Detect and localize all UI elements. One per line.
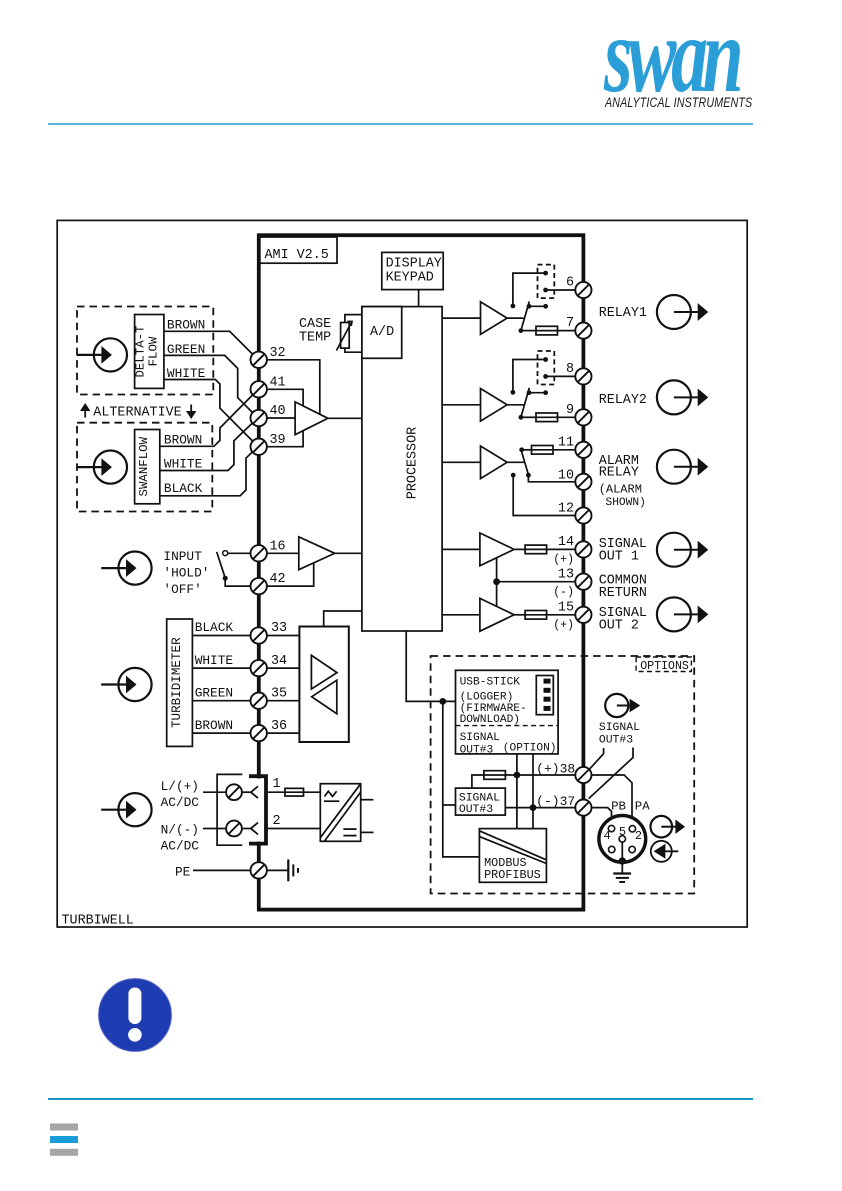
svg-text:(+): (+)	[553, 619, 574, 632]
svg-text:16: 16	[270, 540, 286, 555]
relay 2 contact dot	[543, 390, 548, 395]
interface receiver triangle	[312, 680, 337, 714]
svg-text:USB-STICK: USB-STICK	[460, 676, 521, 688]
wire	[203, 791, 226, 793]
svg-text:2: 2	[273, 814, 281, 829]
terminal 12	[575, 507, 591, 523]
diagram frame	[57, 220, 747, 927]
svg-text:BLACK: BLACK	[195, 620, 234, 635]
wire	[507, 317, 523, 319]
svg-text:(ALARM: (ALARM	[599, 483, 642, 497]
terminal 42	[251, 578, 267, 594]
relay 1 contact dot	[527, 304, 532, 309]
delta-T flow sensor symbol	[77, 338, 127, 371]
relay 1 contact dot	[543, 288, 548, 293]
svg-text:BROWN: BROWN	[167, 318, 205, 333]
svg-text:35: 35	[271, 686, 287, 701]
alarm relay output symbol	[657, 450, 708, 484]
wire	[546, 375, 576, 377]
svg-text:32: 32	[270, 346, 286, 361]
relay 2 contact dot	[543, 357, 548, 362]
terminal 16	[251, 545, 267, 561]
junction common return	[493, 578, 500, 585]
svg-text:'OFF': 'OFF'	[163, 582, 201, 597]
terminal 6	[575, 282, 591, 298]
svg-text:ALTERNATIVE: ALTERNATIVE	[93, 405, 181, 420]
wire	[507, 461, 524, 463]
wire white swanflow to terminal 40	[160, 418, 258, 471]
alternative down arrow	[186, 405, 196, 420]
svg-text:RELAY: RELAY	[599, 466, 639, 481]
wire	[621, 842, 623, 873]
wire	[521, 330, 536, 332]
svg-text:1: 1	[273, 777, 281, 792]
connector pin 5	[619, 836, 625, 842]
wire	[529, 392, 546, 394]
wire	[472, 775, 484, 788]
wire	[345, 315, 362, 323]
wire	[547, 548, 576, 550]
terminal 32	[251, 352, 267, 368]
relay 1 pivot dot	[519, 328, 524, 333]
svg-text:36: 36	[271, 719, 287, 734]
terminal 15	[575, 607, 591, 623]
plug contact N	[242, 823, 258, 835]
svg-text:13: 13	[558, 567, 574, 582]
relay 1 contact box	[538, 265, 555, 299]
relay 1 contact dot	[543, 304, 548, 309]
wire	[507, 404, 523, 406]
svg-text:BROWN: BROWN	[195, 718, 233, 733]
relay 1 output symbol	[657, 295, 708, 329]
wire	[496, 558, 498, 607]
svg-text:RELAY2: RELAY2	[599, 393, 647, 408]
wire	[259, 562, 314, 586]
wire	[546, 289, 576, 291]
processor U1	[362, 307, 442, 631]
relay 2 output symbol	[657, 380, 708, 414]
svg-text:RELAY1: RELAY1	[599, 306, 647, 321]
usb-stick box	[456, 670, 559, 754]
junction usb	[439, 698, 446, 705]
wire	[268, 791, 285, 793]
svg-text:PB: PB	[611, 800, 626, 814]
svg-text:DISPLAY: DISPLAY	[386, 257, 442, 272]
svg-text:42: 42	[270, 572, 286, 587]
wire	[328, 417, 362, 419]
terminal 40	[251, 410, 267, 426]
fuse alarm relay	[532, 446, 554, 455]
wire	[361, 799, 374, 801]
svg-text:DELTA-T: DELTA-T	[133, 325, 147, 377]
svg-text:WHITE: WHITE	[164, 457, 203, 472]
swanflow label box	[135, 430, 160, 504]
svg-text:SHOWN): SHOWN)	[606, 497, 646, 509]
svg-text:'HOLD': 'HOLD'	[163, 565, 209, 580]
svg-text:34: 34	[271, 654, 287, 669]
signal out 1 output symbol	[657, 533, 708, 567]
fuse relay 1	[536, 326, 558, 335]
power terminal N	[226, 821, 242, 837]
svg-text:(-): (-)	[553, 586, 574, 599]
interface driver triangle	[311, 655, 337, 689]
fuse relay 2	[536, 413, 558, 422]
power input symbol	[101, 793, 151, 826]
alarm contact dot	[526, 473, 531, 478]
svg-text:RETURN: RETURN	[599, 586, 647, 601]
terminal 34	[251, 660, 267, 676]
swanflow sensor symbol	[77, 451, 127, 484]
terminal 7	[575, 323, 591, 339]
svg-text:(+): (+)	[553, 554, 574, 567]
profibus input symbol	[651, 841, 679, 862]
footer bar 3	[50, 1149, 78, 1156]
connector pin bottom left	[609, 846, 615, 852]
svg-text:5: 5	[619, 825, 626, 839]
wire	[521, 416, 536, 418]
connector pin 2	[629, 826, 635, 832]
svg-text:FLOW: FLOW	[146, 336, 160, 366]
svg-text:TEMP: TEMP	[299, 331, 331, 346]
wire	[406, 631, 455, 701]
svg-text:OUT#3: OUT#3	[459, 804, 493, 816]
signal out 1 amplifier A6	[480, 533, 514, 566]
wire	[514, 548, 525, 550]
wire	[547, 614, 576, 616]
svg-text:11: 11	[558, 436, 574, 451]
wire	[532, 754, 534, 829]
turbidimeter label box	[167, 619, 193, 746]
footer bar 2	[50, 1136, 78, 1143]
wire	[361, 831, 374, 833]
svg-text:10: 10	[558, 468, 574, 483]
svg-text:(+)38: (+)38	[536, 761, 575, 776]
display keypad box U2	[382, 252, 443, 289]
power terminal L	[226, 784, 242, 800]
junction connector shield	[619, 857, 627, 865]
relay 2 contact arm	[521, 388, 529, 417]
wire	[558, 330, 576, 332]
svg-text:40: 40	[270, 404, 286, 419]
wire terminal 35 to interface	[259, 700, 300, 702]
wire black swanflow to terminal 39	[160, 446, 258, 496]
relay 2 contact dot	[527, 390, 532, 395]
fuse signal out 2	[525, 611, 547, 620]
wire	[193, 869, 251, 871]
wire brown to terminal 36	[192, 732, 258, 734]
wire	[591, 808, 611, 829]
svg-text:OUT 2: OUT 2	[599, 618, 639, 633]
terminal 38	[575, 767, 591, 783]
wire	[203, 828, 226, 830]
svg-text:AMI V2.5: AMI V2.5	[265, 248, 329, 263]
svg-text:BROWN: BROWN	[164, 432, 202, 447]
ground symbol connector	[613, 874, 631, 883]
wire	[268, 828, 321, 830]
svg-text:TURBIDIMETER: TURBIDIMETER	[170, 637, 184, 728]
svg-text:PE: PE	[175, 865, 191, 880]
junction 37	[530, 804, 537, 811]
connector pin 4	[608, 825, 614, 831]
wire	[589, 748, 603, 769]
svg-text:(LOGGER): (LOGGER)	[460, 692, 514, 704]
wire	[227, 552, 258, 554]
fuse signal out 3	[484, 771, 506, 780]
svg-text:GREEN: GREEN	[195, 685, 233, 700]
wire	[553, 449, 575, 451]
hold switch S1	[217, 551, 228, 581]
relay 2 amplifier A4	[481, 389, 508, 422]
sensor amplifier A1	[295, 402, 328, 435]
alarm relay amplifier A5	[481, 446, 508, 479]
wire	[259, 360, 320, 415]
A/D converter U3	[362, 307, 402, 359]
svg-text:BLACK: BLACK	[164, 481, 203, 496]
svg-text:OUT 1: OUT 1	[599, 549, 639, 564]
signal out 2 output symbol	[657, 597, 708, 631]
signal out 3 module box	[456, 788, 506, 815]
wire	[589, 748, 633, 799]
svg-text:(FIRMWARE-: (FIRMWARE-	[460, 703, 527, 715]
AC/DC converter U5	[320, 784, 360, 842]
wire	[514, 614, 525, 616]
svg-text:PROCESSOR: PROCESSOR	[406, 427, 421, 499]
alarm contact dot	[511, 473, 516, 478]
delta-T flow sensor dashed box	[77, 307, 213, 395]
svg-text:(OPTION): (OPTION)	[503, 742, 557, 754]
svg-text:L/(+): L/(+)	[161, 779, 199, 794]
warning icon	[99, 979, 172, 1052]
hold amplifier A2	[299, 537, 335, 570]
wire white delta-T to terminal 39	[164, 380, 258, 447]
wire	[505, 774, 575, 776]
AMI V2.5 unit box	[259, 235, 584, 909]
thermistor RT1	[336, 321, 352, 350]
wire	[324, 611, 362, 627]
wire black to terminal 33	[192, 635, 258, 637]
svg-text:OUT#3: OUT#3	[460, 744, 494, 756]
svg-text:INPUT: INPUT	[163, 549, 202, 564]
relay 1 contact dot	[543, 271, 548, 276]
svg-text:39: 39	[270, 433, 286, 448]
svg-text:DOWNLOAD): DOWNLOAD)	[460, 714, 520, 726]
svg-text:TURBIWELL: TURBIWELL	[62, 914, 134, 929]
swan logo	[604, 1, 804, 95]
modbus profibus box	[479, 829, 546, 883]
wire keypad to processor	[418, 290, 420, 307]
terminal 11	[575, 442, 591, 458]
wire	[442, 317, 480, 319]
svg-text:8: 8	[566, 362, 574, 377]
terminal 13	[575, 574, 591, 590]
svg-text:4: 4	[604, 829, 611, 843]
fuse F1	[285, 788, 304, 796]
svg-text:SIGNAL: SIGNAL	[599, 722, 640, 734]
svg-text:N/(-): N/(-)	[161, 822, 199, 837]
profibus output symbol	[651, 816, 686, 838]
wire	[267, 869, 288, 871]
wire	[259, 389, 303, 407]
relay 2 contact dot	[511, 390, 516, 395]
wire	[442, 461, 480, 463]
svg-text:41: 41	[270, 376, 286, 391]
relay 1 amplifier A3	[481, 302, 508, 335]
svg-text:7: 7	[566, 316, 574, 331]
connector pin bottom right	[629, 846, 635, 852]
wire	[505, 807, 575, 809]
svg-text:14: 14	[558, 535, 574, 550]
wire brown delta-T to terminal 32	[164, 331, 258, 360]
junction 38	[514, 772, 521, 779]
terminal 41	[251, 381, 267, 397]
bus gap at power connector	[256, 778, 262, 841]
terminal 35	[251, 693, 267, 709]
OPTIONS label box	[636, 657, 691, 672]
turbidimeter sensor symbol	[101, 668, 151, 701]
alarm relay contact arm	[522, 452, 529, 474]
M12 connector J1	[599, 816, 646, 863]
terminal 36	[251, 725, 267, 741]
signal out 3 output symbol	[605, 694, 640, 717]
wire	[304, 791, 321, 793]
wire	[558, 416, 576, 418]
AMI V2.5 label box	[259, 237, 337, 263]
power connector plug bracket	[249, 776, 266, 843]
wire	[442, 614, 480, 616]
svg-text:12: 12	[558, 501, 574, 516]
relay 2 contact dot	[543, 374, 548, 379]
svg-text:PA: PA	[635, 800, 650, 814]
svg-text:SIGNAL: SIGNAL	[459, 793, 500, 805]
wire brown swanflow to terminal 41	[160, 389, 258, 446]
alarm contact dot	[519, 447, 524, 452]
turbidimeter interface U4	[299, 627, 348, 743]
logo subtitle	[605, 95, 800, 111]
wire terminal 34 to interface	[259, 667, 300, 669]
terminal 14	[575, 541, 591, 557]
svg-text:WHITE: WHITE	[195, 653, 234, 668]
svg-text:33: 33	[271, 621, 287, 636]
terminal 10	[575, 474, 591, 490]
svg-text:OPTIONS: OPTIONS	[640, 660, 689, 673]
svg-text:15: 15	[558, 600, 574, 615]
options dashed box	[431, 656, 695, 894]
relay 2 contact box	[538, 351, 555, 385]
wire	[225, 580, 259, 586]
svg-text:(-)37: (-)37	[536, 794, 575, 809]
usb box divider	[456, 725, 559, 727]
wire	[259, 552, 299, 554]
wire green delta-T to terminal 40	[164, 355, 258, 418]
wire	[513, 360, 546, 391]
wire	[345, 348, 362, 352]
terminal 37	[575, 800, 591, 816]
wire	[528, 475, 575, 482]
svg-text:2: 2	[635, 829, 642, 843]
wire	[442, 404, 480, 406]
svg-text:KEYPAD: KEYPAD	[386, 271, 434, 286]
relay 1 contact arm	[521, 302, 529, 331]
svg-text:AC/DC: AC/DC	[161, 795, 200, 810]
wire	[592, 775, 632, 829]
usb connector icon	[536, 676, 553, 715]
svg-text:AC/DC: AC/DC	[161, 838, 200, 853]
wire	[497, 581, 576, 583]
svg-text:SWANFLOW: SWANFLOW	[137, 436, 151, 496]
terminal 33	[251, 627, 267, 643]
swanflow sensor dashed box	[77, 423, 212, 512]
header rule	[48, 123, 753, 125]
wire terminal 36 to interface	[259, 732, 300, 734]
alternative up arrow	[80, 403, 90, 418]
wire green to terminal 35	[192, 700, 258, 702]
plug contact L	[242, 786, 258, 798]
wire	[443, 701, 480, 857]
footer rule	[48, 1098, 753, 1100]
svg-text:PROFIBUS: PROFIBUS	[484, 868, 541, 882]
wire	[529, 305, 546, 307]
relay 1 contact dot	[511, 304, 516, 309]
terminal 8	[575, 368, 591, 384]
relay 2 pivot dot	[519, 415, 524, 420]
terminal 9	[575, 409, 591, 425]
wire	[259, 417, 295, 419]
svg-text:A/D: A/D	[370, 325, 394, 340]
wire	[513, 273, 546, 304]
terminal PE	[251, 862, 267, 878]
fuse signal out 1	[525, 545, 547, 554]
terminal 39	[251, 439, 267, 455]
wire white to terminal 34	[192, 667, 258, 669]
footer bar 1	[50, 1124, 78, 1131]
input hold symbol	[101, 552, 151, 585]
svg-text:6: 6	[566, 276, 574, 291]
svg-text:OUT#3: OUT#3	[599, 734, 633, 746]
delta-T flow label box	[135, 315, 164, 389]
ground symbol PE	[288, 860, 298, 882]
svg-text:SIGNAL: SIGNAL	[460, 732, 501, 744]
wire	[259, 430, 303, 447]
wire	[513, 475, 575, 515]
wire	[516, 754, 518, 829]
wire	[335, 552, 362, 554]
wire	[443, 804, 456, 806]
wire	[522, 449, 532, 451]
wire	[442, 548, 480, 550]
wire terminal 33 to interface	[259, 635, 300, 637]
power connector socket box	[217, 774, 242, 845]
signal out 2 amplifier A7	[480, 598, 514, 631]
svg-text:9: 9	[566, 403, 574, 418]
